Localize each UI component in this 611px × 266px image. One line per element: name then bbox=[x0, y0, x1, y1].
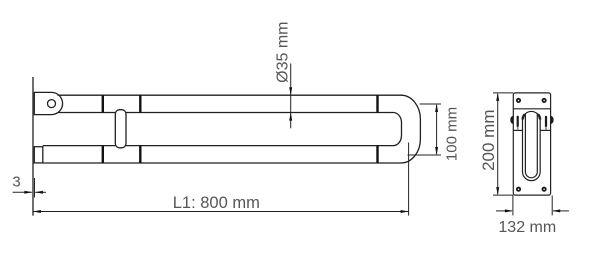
pivot pin guide left bbox=[517, 127, 519, 130]
weld tick top tube left bbox=[102, 95, 104, 112]
extension line 200mm bottom bbox=[493, 194, 513, 196]
screw hole top left bbox=[516, 98, 521, 103]
svg-text:200 mm: 200 mm bbox=[479, 109, 498, 170]
dimension line 132mm left tail bbox=[496, 210, 512, 212]
middle connector link bbox=[115, 110, 126, 148]
extension line 200mm top bbox=[493, 92, 513, 94]
svg-text:3: 3 bbox=[12, 174, 20, 191]
arrowhead diameter bottom bbox=[289, 113, 292, 121]
hinge housing bottom line right bbox=[540, 129, 550, 131]
pivot hole bbox=[48, 100, 56, 108]
bottom tube inner edge left segment bbox=[43, 145, 116, 147]
hinge bracket plate bbox=[34, 92, 62, 114]
wall line bbox=[32, 77, 34, 216]
arrowhead 132mm pointing right bbox=[505, 209, 513, 212]
extension line 3mm bbox=[34, 178, 36, 198]
arrowhead diameter top bbox=[289, 87, 292, 95]
svg-text:132 mm: 132 mm bbox=[498, 219, 556, 236]
svg-text:Ø35 mm: Ø35 mm bbox=[274, 22, 291, 83]
dimension line L1 bbox=[33, 211, 408, 213]
extension line 132mm left bbox=[512, 196, 514, 216]
pivot pin bar left bbox=[517, 116, 519, 127]
screw hole bottom right bbox=[542, 187, 547, 192]
hinge housing top line bbox=[513, 108, 550, 110]
svg-text:100 mm: 100 mm bbox=[444, 107, 461, 161]
weld tick top tube right bbox=[376, 95, 378, 112]
arrowhead 100mm down bbox=[435, 147, 438, 155]
extension line L1 right bbox=[408, 143, 410, 216]
front view wall plate bbox=[513, 93, 550, 195]
pivot pin guide right bbox=[545, 127, 547, 130]
weld tick top tube mid bbox=[139, 95, 141, 112]
arrowhead L1 left bbox=[33, 210, 41, 213]
pivot boss bump right bbox=[551, 116, 554, 125]
dimension 3mm right tail bbox=[35, 191, 46, 193]
arrowhead 3mm pointing right bbox=[24, 191, 32, 194]
dimension line 132mm right tail bbox=[553, 210, 569, 212]
arrowhead 200mm up bbox=[496, 93, 499, 101]
arrowhead 3mm pointing left bbox=[35, 191, 43, 194]
arrowhead 200mm down bbox=[496, 187, 499, 195]
arrowhead 100mm up bbox=[435, 104, 438, 112]
slot shoulder thickening left bbox=[523, 114, 525, 119]
extension line 132mm right bbox=[551, 196, 553, 216]
pivot boss bump left bbox=[510, 116, 513, 125]
top tube inner edge right segment and bend inner contour and bottom tube inner edge bbox=[126, 113, 402, 146]
screw hole top right bbox=[542, 98, 547, 103]
bottom tube end cap bbox=[34, 147, 43, 163]
diameter dimension leader lower bbox=[290, 113, 292, 129]
dimension line 100mm bbox=[436, 105, 438, 154]
screw hole bottom left bbox=[516, 187, 521, 192]
folded tube inner silhouette U bbox=[525, 114, 537, 178]
hinge housing bottom line left bbox=[513, 129, 522, 131]
weld tick bottom tube right bbox=[376, 146, 378, 163]
top tube inner edge left segment bbox=[58, 112, 115, 114]
top tube outer edge and right bend outer contour and bottom tube bottom edge bbox=[43, 95, 421, 163]
extension line 100mm bottom bbox=[408, 154, 442, 156]
weld tick bottom tube left bbox=[102, 146, 104, 163]
arrowhead 132mm pointing left bbox=[552, 209, 560, 212]
arrowhead L1 right bbox=[401, 210, 409, 213]
extension line 100mm top bbox=[420, 103, 441, 105]
dimension line 200mm bbox=[497, 94, 499, 195]
pivot pin bar right bbox=[545, 116, 547, 127]
folded tube outer silhouette bbox=[523, 111, 541, 180]
diameter dimension leader middle bbox=[290, 95, 292, 112]
weld tick bottom tube mid bbox=[139, 146, 141, 163]
diameter dimension leader upper bbox=[290, 64, 292, 96]
slot shoulder thickening right bbox=[538, 114, 540, 119]
svg-text:L1: 800 mm: L1: 800 mm bbox=[173, 194, 260, 212]
dimension 3mm left tail bbox=[13, 191, 32, 193]
